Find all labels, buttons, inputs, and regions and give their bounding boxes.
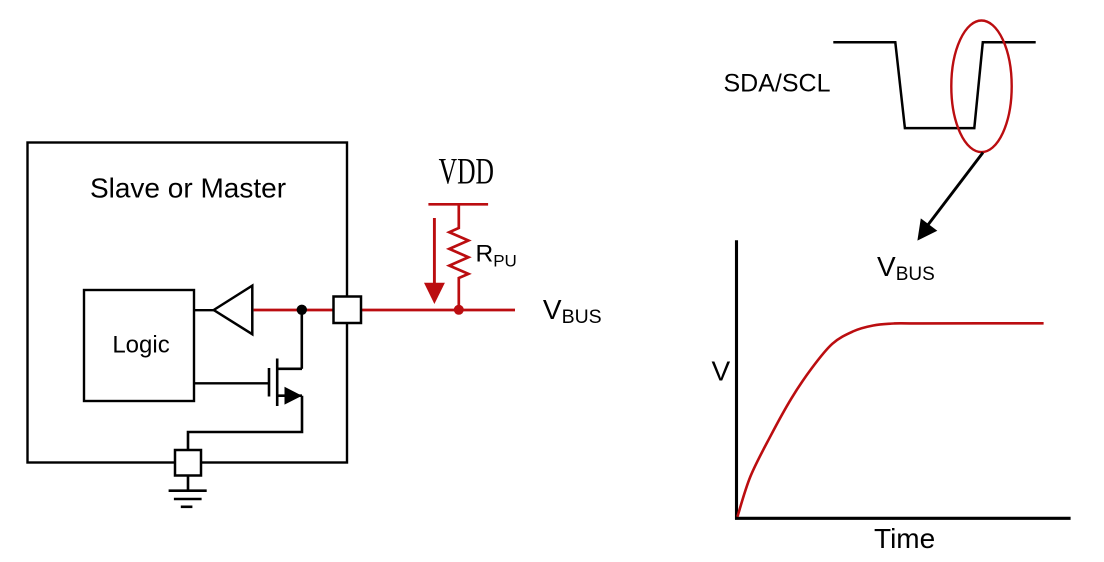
pad: ground pin on bottom edge of box: [175, 450, 201, 476]
svg-text:SDA/SCL: SDA/SCL: [724, 70, 831, 98]
axis: Y axis of graph: [735, 240, 738, 519]
ellipse: red highlight of rising edge: [951, 21, 1011, 153]
arrow: current flow arrow (red, downward): [424, 218, 445, 304]
pad: IC pin on right edge of box: [334, 297, 362, 324]
transistor Q1: open-drain NMOS: [269, 359, 302, 407]
curve: V_BUS exponential rise (red): [737, 323, 1043, 517]
wire: drain up to bus node: [300, 310, 303, 369]
power rail: VDD bar: [428, 203, 488, 206]
svg-text:V: V: [712, 355, 731, 386]
wire: Logic to MOSFET gate: [193, 382, 268, 384]
svg-text:VDD: VDD: [439, 151, 494, 192]
resistor R_PU: pull-up resistor zigzag: [449, 204, 468, 309]
buffer U2: input buffer triangle (pointing left): [214, 286, 253, 335]
box U1: Slave or Master outline: [28, 143, 348, 463]
wire: source down and left to ground pad: [188, 396, 302, 451]
node: red junction dot at resistor/bus: [454, 305, 464, 315]
node: bus junction dot (black): [297, 305, 307, 315]
svg-text:Slave or Master: Slave or Master: [90, 173, 286, 204]
ground: earth symbol: [169, 476, 207, 507]
arrow: from ellipse to V_BUS graph: [917, 153, 983, 241]
svg-text:Logic: Logic: [112, 332, 169, 359]
wire: red bus from buffer to VBUS: [254, 309, 515, 312]
box: Logic block: [84, 290, 194, 401]
axis: X axis of graph: [735, 517, 1071, 520]
waveform: SDA/SCL pulse: [833, 42, 1035, 128]
wire: Logic output to buffer apex: [193, 309, 215, 311]
svg-text:Time: Time: [874, 523, 935, 554]
